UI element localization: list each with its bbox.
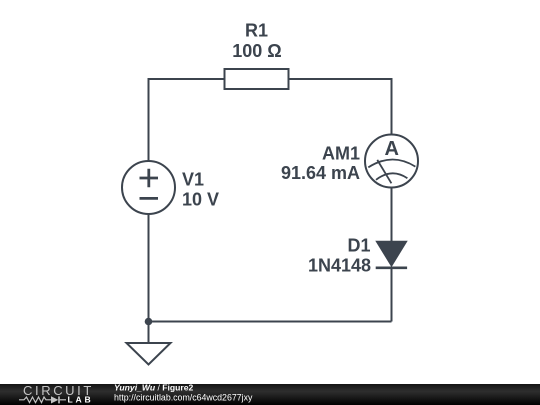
ammeter AM1 body <box>365 135 418 188</box>
wire bottom (bottom node to bottom-right corner) <box>149 321 392 323</box>
svg-text:AM1: AM1 <box>322 144 360 164</box>
voltage source V1 plus sign <box>140 169 159 188</box>
ammeter AM1 meter arc outer <box>368 159 415 167</box>
wire top-right (node between R1 and AM1) <box>289 78 392 80</box>
ground symbol <box>127 343 171 365</box>
wire left upper (V1 to top corner) <box>148 78 150 161</box>
svg-text:10 V: 10 V <box>182 190 219 210</box>
node junction dot <box>145 318 153 326</box>
wire ground stub <box>148 322 150 344</box>
svg-text:Yunyi_Wu / Figure2: Yunyi_Wu / Figure2 <box>114 382 194 392</box>
svg-text:1N4148: 1N4148 <box>308 256 371 276</box>
wire right middle (AM1 to D1) <box>391 188 393 243</box>
CircuitLab logo diode symbol <box>51 396 58 403</box>
svg-text:100 Ω: 100 Ω <box>232 41 281 61</box>
voltage source V1 body <box>122 161 175 214</box>
footer bar <box>0 384 540 405</box>
wire right upper (top corner to AM1) <box>391 78 393 135</box>
wire top-left (node between V1 and R1) <box>149 78 225 80</box>
diode D1 cathode bar <box>376 266 407 269</box>
voltage source V1 minus sign <box>140 197 159 200</box>
ammeter AM1 meter arc inner <box>376 173 407 180</box>
diode D1 anode triangle <box>377 242 407 266</box>
resistor R1 body <box>225 69 289 89</box>
svg-text:D1: D1 <box>347 236 370 256</box>
svg-text:http://circuitlab.com/c64wcd26: http://circuitlab.com/c64wcd2677jxy <box>114 392 253 402</box>
ammeter AM1 needle <box>377 160 391 183</box>
svg-text:V1: V1 <box>182 170 204 190</box>
svg-text:91.64 mA: 91.64 mA <box>281 163 360 183</box>
svg-text:R1: R1 <box>245 21 268 41</box>
wire left lower (V1 to bottom node) <box>148 214 150 322</box>
CircuitLab logo resistor zigzag <box>19 397 51 403</box>
svg-text:A: A <box>384 138 398 160</box>
svg-text:LAB: LAB <box>68 395 94 405</box>
wire right lower (D1 to bottom corner) <box>391 268 393 322</box>
